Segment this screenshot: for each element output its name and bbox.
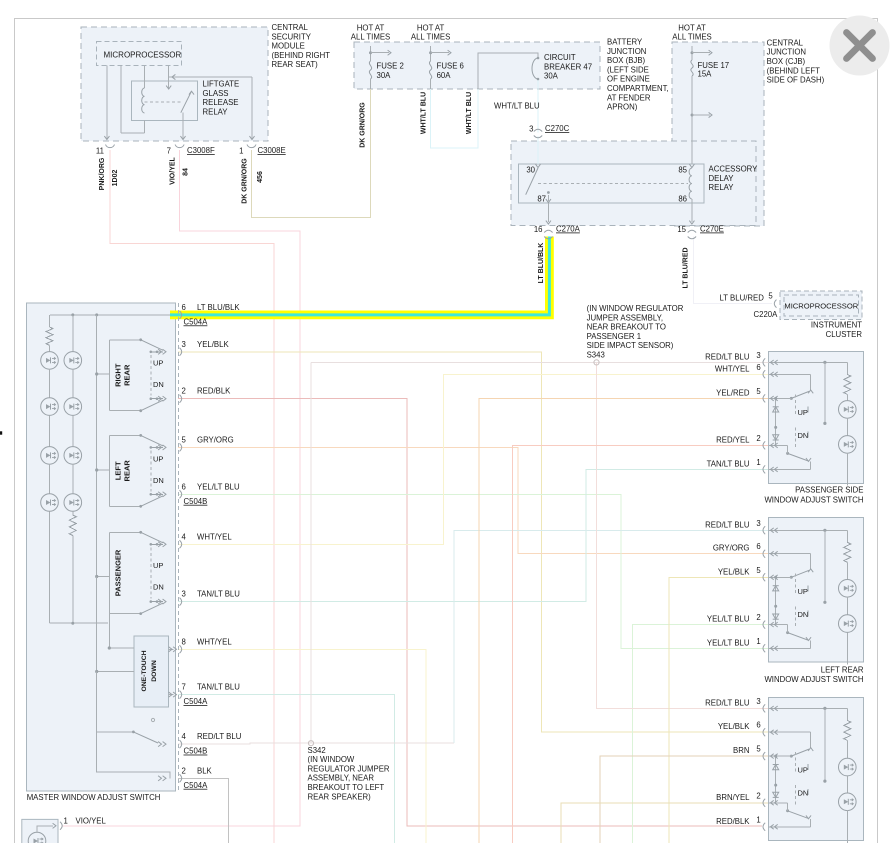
master bottom bus xyxy=(50,622,109,624)
switch pin2 row xyxy=(769,444,788,446)
switch diode column xyxy=(775,398,777,445)
svg-text:MICROPROCESSOR: MICROPROCESSOR xyxy=(104,51,182,60)
switch arm down xyxy=(788,811,808,819)
svg-text:DN: DN xyxy=(153,583,164,592)
svg-text:REAR: REAR xyxy=(123,460,132,482)
switch arm down xyxy=(788,633,808,641)
svg-text:PNK/ORG: PNK/ORG xyxy=(99,157,106,190)
svg-text:6: 6 xyxy=(756,363,760,372)
switch resistor xyxy=(846,362,848,374)
svg-text:NEAR BREAKOUT TO: NEAR BREAKOUT TO xyxy=(587,323,666,332)
svg-text:RELAY: RELAY xyxy=(203,107,229,116)
svg-text:GRY/ORG: GRY/ORG xyxy=(713,544,750,553)
svg-text:UP: UP xyxy=(798,408,808,417)
svg-text:UP: UP xyxy=(798,766,808,775)
wire WHT/LT BLU to relay xyxy=(537,136,539,141)
wire YEL/BLK left rear xyxy=(669,577,768,843)
right rear window adjust switch box xyxy=(769,698,864,841)
svg-text:S342: S342 xyxy=(308,746,326,755)
svg-text:30A: 30A xyxy=(377,71,392,80)
master lamps col2 xyxy=(72,315,74,352)
svg-text:SIDE IMPACT SENSOR): SIDE IMPACT SENSOR) xyxy=(587,341,674,350)
splice S343 xyxy=(594,360,599,365)
svg-text:HOT AT: HOT AT xyxy=(678,23,706,32)
switch lamp 1 xyxy=(839,401,857,419)
svg-text:C270A: C270A xyxy=(556,225,581,234)
svg-text:15A: 15A xyxy=(698,70,713,79)
switch pin6 branch xyxy=(769,553,811,555)
svg-text:C220A: C220A xyxy=(754,310,779,319)
svg-text:REAR SEAT): REAR SEAT) xyxy=(272,60,319,69)
svg-text:YEL/LT BLU: YEL/LT BLU xyxy=(707,615,750,624)
switch arm up xyxy=(791,570,809,577)
battery junction box BJB xyxy=(354,42,600,89)
wire LT BLU/RED xyxy=(694,237,772,304)
switch lamp 2 xyxy=(839,793,857,811)
svg-text:6: 6 xyxy=(756,542,760,551)
svg-text:1: 1 xyxy=(756,458,760,467)
highlighted wire LT BLU/BLK xyxy=(170,237,549,315)
central junction box CJB xyxy=(672,42,764,226)
svg-text:COMPARTMENT,: COMPARTMENT, xyxy=(607,84,669,93)
master resistor col1 xyxy=(49,315,51,327)
svg-text:3: 3 xyxy=(182,590,186,599)
svg-text:2: 2 xyxy=(182,387,186,396)
svg-text:WHT/LT BLU: WHT/LT BLU xyxy=(421,92,428,134)
svg-text:3: 3 xyxy=(756,697,760,706)
switch pin2 row xyxy=(769,624,788,626)
close button xyxy=(830,16,890,76)
wire RED/YEL xyxy=(513,445,769,843)
svg-text:YEL/RED: YEL/RED xyxy=(716,388,750,397)
switch arm up xyxy=(791,391,809,398)
wire VIO/YEL 84 xyxy=(62,150,300,826)
svg-text:RED/LT BLU: RED/LT BLU xyxy=(705,520,750,529)
wire GRY/ORG net xyxy=(178,447,768,553)
svg-text:C3008E: C3008E xyxy=(258,146,286,155)
svg-text:(IN WINDOW: (IN WINDOW xyxy=(308,755,355,764)
one-touch down box xyxy=(134,636,169,707)
wire TAN/LT BLU net 1 xyxy=(178,469,768,601)
svg-text:C504A: C504A xyxy=(184,317,209,326)
BJB fuse 6 xyxy=(430,46,432,61)
svg-text:HOT AT: HOT AT xyxy=(417,23,445,32)
svg-text:RED/BLK: RED/BLK xyxy=(716,817,750,826)
switch top rail xyxy=(769,529,848,531)
relay output wire xyxy=(169,76,252,78)
liftgate glass release relay box xyxy=(132,81,198,121)
svg-text:LT BLU/RED: LT BLU/RED xyxy=(683,247,690,288)
svg-text:BATTERY: BATTERY xyxy=(607,38,643,47)
wire WHT/LT BLU breaker xyxy=(537,79,539,131)
svg-text:1: 1 xyxy=(239,147,243,156)
switch pin5 row xyxy=(769,397,792,399)
svg-text:GRY/ORG: GRY/ORG xyxy=(197,435,234,444)
svg-text:REGULATOR JUMPER: REGULATOR JUMPER xyxy=(308,764,390,773)
svg-text:ALL TIMES: ALL TIMES xyxy=(351,33,390,42)
svg-text:RED/YEL: RED/YEL xyxy=(716,435,750,444)
svg-text:FUSE 2: FUSE 2 xyxy=(377,62,404,71)
svg-text:PASSENGER 1: PASSENGER 1 xyxy=(587,332,641,341)
wire WHT/LT BLU loop xyxy=(431,89,478,148)
wire DK GRN/ORG 456 xyxy=(252,89,371,218)
svg-text:WINDOW ADJUST SWITCH: WINDOW ADJUST SWITCH xyxy=(764,675,863,684)
master C504 dashed line xyxy=(177,303,179,790)
master switch top bus xyxy=(50,314,170,316)
svg-text:ASSEMBLY, NEAR: ASSEMBLY, NEAR xyxy=(308,774,375,783)
svg-text:86: 86 xyxy=(678,195,687,204)
svg-text:C270E: C270E xyxy=(700,225,724,234)
svg-text:VIO/YEL: VIO/YEL xyxy=(170,156,177,184)
svg-text:LEFT: LEFT xyxy=(114,461,123,480)
svg-text:DK GRN/ORG: DK GRN/ORG xyxy=(360,102,367,148)
wire YEL/LT BLU net 1 xyxy=(178,494,768,648)
svg-text:30: 30 xyxy=(526,166,535,175)
circuit breaker 47 xyxy=(478,53,538,89)
svg-text:LT BLU/BLK: LT BLU/BLK xyxy=(197,303,240,312)
svg-text:BRN: BRN xyxy=(733,746,749,755)
wire YEL/BLK net xyxy=(178,352,768,732)
svg-text:RED/LT BLU: RED/LT BLU xyxy=(705,698,750,707)
svg-text:MICROPROCESSOR: MICROPROCESSOR xyxy=(784,302,858,311)
svg-text:RELAY: RELAY xyxy=(709,183,735,192)
svg-text:LT BLU/RED: LT BLU/RED xyxy=(720,294,765,303)
CSM microprocessor wires xyxy=(106,66,108,139)
svg-text:ONE-TOUCH: ONE-TOUCH xyxy=(141,650,148,691)
svg-text:DN: DN xyxy=(153,380,164,389)
liftgate relay internals xyxy=(142,88,145,113)
switch lamp 1 xyxy=(839,758,857,776)
svg-text:6: 6 xyxy=(182,303,186,312)
passenger side window adjust switch box xyxy=(769,351,864,483)
master pin arrows and connector arcs xyxy=(180,311,182,319)
svg-text:(IN WINDOW REGULATOR: (IN WINDOW REGULATOR xyxy=(587,304,684,313)
switch arm down xyxy=(788,453,808,461)
master left rear section xyxy=(108,435,110,506)
svg-text:CENTRAL: CENTRAL xyxy=(767,38,804,47)
svg-text:JUNCTION: JUNCTION xyxy=(767,48,806,57)
svg-text:TAN/LT BLU: TAN/LT BLU xyxy=(707,459,750,468)
connector C3008 arcs xyxy=(106,145,115,148)
relay coil 85-86 xyxy=(689,164,694,167)
instrument cluster connector xyxy=(774,300,776,308)
wire YEL/RED xyxy=(479,398,768,843)
svg-text:15: 15 xyxy=(677,225,686,234)
svg-text:YEL/BLK: YEL/BLK xyxy=(718,722,750,731)
svg-text:ACCESSORY: ACCESSORY xyxy=(709,165,759,174)
svg-text:C504A: C504A xyxy=(184,697,209,706)
BJB fuse 2 xyxy=(370,46,372,61)
svg-text:30A: 30A xyxy=(544,72,559,81)
svg-text:WHT/YEL: WHT/YEL xyxy=(197,532,232,541)
bottom left lamp box xyxy=(22,819,58,843)
svg-text:DN: DN xyxy=(153,476,164,485)
switch pin1 row xyxy=(769,647,811,649)
master lamps col1 xyxy=(49,351,51,353)
svg-text:SECURITY: SECURITY xyxy=(272,32,312,41)
svg-text:REAR: REAR xyxy=(123,364,132,386)
svg-text:DK GRN/ORG: DK GRN/ORG xyxy=(242,158,249,204)
wire BLK xyxy=(178,778,229,843)
svg-text:(BEHIND LEFT: (BEHIND LEFT xyxy=(767,66,821,75)
splice S342 xyxy=(308,741,313,746)
svg-text:2: 2 xyxy=(756,434,760,443)
svg-text:CIRCUIT: CIRCUIT xyxy=(544,53,576,62)
svg-text:INSTRUMENT: INSTRUMENT xyxy=(811,321,862,330)
switch arm up xyxy=(791,749,809,756)
svg-text:DN: DN xyxy=(798,610,809,619)
wire RED/LT BLU net xyxy=(311,361,770,363)
svg-text:SIDE OF DASH): SIDE OF DASH) xyxy=(767,76,825,85)
svg-text:TAN/LT BLU: TAN/LT BLU xyxy=(197,683,240,692)
switch top rail xyxy=(769,361,848,363)
svg-text:6: 6 xyxy=(756,721,760,730)
svg-text:YEL/BLK: YEL/BLK xyxy=(718,567,750,576)
central security module box xyxy=(81,27,268,141)
svg-text:16: 16 xyxy=(534,225,543,234)
switch lamp 2 xyxy=(839,436,857,454)
svg-text:MODULE: MODULE xyxy=(272,42,305,51)
svg-text:YEL/LT BLU: YEL/LT BLU xyxy=(197,482,240,491)
svg-text:3: 3 xyxy=(756,351,760,360)
svg-text:APRON): APRON) xyxy=(607,103,638,112)
svg-text:REAR SPEAKER): REAR SPEAKER) xyxy=(308,792,372,801)
svg-text:BREAKOUT TO LEFT: BREAKOUT TO LEFT xyxy=(308,783,385,792)
svg-text:456: 456 xyxy=(257,171,264,183)
svg-text:C504B: C504B xyxy=(184,497,208,506)
svg-text:WINDOW ADJUST SWITCH: WINDOW ADJUST SWITCH xyxy=(764,496,863,505)
wire RED/BLK net xyxy=(178,399,762,826)
svg-text:LIFTGATE: LIFTGATE xyxy=(203,80,240,89)
svg-text:RIGHT: RIGHT xyxy=(114,363,123,387)
svg-text:CENTRAL: CENTRAL xyxy=(272,23,309,32)
accessory delay relay internals xyxy=(535,164,540,167)
svg-text:WHT/YEL: WHT/YEL xyxy=(197,637,232,646)
svg-text:CLUSTER: CLUSTER xyxy=(826,330,863,339)
svg-text:3: 3 xyxy=(756,519,760,528)
microprocessor box IC xyxy=(784,295,859,316)
svg-text:BOX (CJB): BOX (CJB) xyxy=(767,57,806,66)
wire TAN/LT BLU net 2 xyxy=(178,695,395,843)
svg-text:UP: UP xyxy=(153,359,163,368)
svg-text:VIO/YEL: VIO/YEL xyxy=(76,817,107,826)
switch resistor xyxy=(846,708,848,720)
switch pin chevrons xyxy=(771,706,774,711)
svg-text:3: 3 xyxy=(182,340,186,349)
svg-text:85: 85 xyxy=(678,166,687,175)
instrument cluster box xyxy=(780,291,862,320)
svg-text:RELEASE: RELEASE xyxy=(203,98,239,107)
switch diode column xyxy=(775,577,777,624)
left rear window adjust switch box xyxy=(769,517,864,662)
switch pin5 row xyxy=(769,755,792,757)
svg-text:WHT/LT BLU: WHT/LT BLU xyxy=(466,92,473,134)
svg-text:FUSE 6: FUSE 6 xyxy=(437,62,464,71)
wire BRN/YEL xyxy=(561,803,768,843)
switch pin6 branch xyxy=(769,373,811,375)
master section bus xyxy=(96,315,98,577)
svg-text:C270C: C270C xyxy=(545,124,570,133)
svg-text:BREAKER 47: BREAKER 47 xyxy=(544,62,592,71)
wire PNK/ORG 1D02 xyxy=(110,150,274,843)
svg-text:8: 8 xyxy=(182,637,186,646)
svg-text:(LEFT SIDE: (LEFT SIDE xyxy=(607,65,649,74)
svg-text:7: 7 xyxy=(182,683,186,692)
svg-text:UP: UP xyxy=(153,455,163,464)
left edge notch xyxy=(0,431,2,434)
svg-text:DN: DN xyxy=(798,431,809,440)
svg-text:2: 2 xyxy=(756,613,760,622)
svg-text:ALL TIMES: ALL TIMES xyxy=(411,33,450,42)
connector C270A xyxy=(544,230,552,232)
switch pin1 row xyxy=(769,826,811,828)
svg-text:5: 5 xyxy=(768,292,773,301)
switch pin2 row xyxy=(769,802,788,804)
svg-text:GLASS: GLASS xyxy=(203,89,229,98)
svg-text:6: 6 xyxy=(182,482,186,491)
svg-text:UP: UP xyxy=(798,587,808,596)
svg-text:DN: DN xyxy=(798,789,809,798)
svg-text:1D02: 1D02 xyxy=(112,170,119,187)
svg-text:3: 3 xyxy=(529,125,533,134)
svg-text:BRN/YEL: BRN/YEL xyxy=(716,793,750,802)
svg-text:11: 11 xyxy=(96,147,104,156)
wire YEL/LT BLU net 2 xyxy=(633,625,769,843)
CJB fuse 17 xyxy=(691,46,693,60)
svg-text:5: 5 xyxy=(182,435,187,444)
svg-text:(BEHIND RIGHT: (BEHIND RIGHT xyxy=(272,51,331,60)
svg-text:HOT AT: HOT AT xyxy=(357,23,385,32)
svg-text:LEFT REAR: LEFT REAR xyxy=(821,666,864,675)
switch lamp 2 xyxy=(839,615,857,633)
svg-text:5: 5 xyxy=(756,387,761,396)
svg-text:87: 87 xyxy=(537,195,546,204)
svg-text:RED/BLK: RED/BLK xyxy=(197,387,231,396)
svg-text:7: 7 xyxy=(167,147,171,156)
svg-text:PASSENGER SIDE: PASSENGER SIDE xyxy=(795,486,863,495)
svg-text:C504A: C504A xyxy=(184,781,209,790)
svg-text:BLK: BLK xyxy=(197,766,213,775)
svg-text:RED/LT BLU: RED/LT BLU xyxy=(197,732,242,741)
master one-touch switch arm xyxy=(96,672,98,732)
svg-text:WHT/LT BLU: WHT/LT BLU xyxy=(494,102,540,111)
svg-text:C504B: C504B xyxy=(184,747,208,756)
switch pin chevrons xyxy=(771,360,774,365)
accessory delay relay inner box xyxy=(519,164,704,203)
master passenger section xyxy=(108,532,110,613)
svg-text:WHT/YEL: WHT/YEL xyxy=(715,364,750,373)
svg-text:PASSENGER: PASSENGER xyxy=(114,549,123,596)
svg-text:YEL/BLK: YEL/BLK xyxy=(197,340,229,349)
switch resistor xyxy=(846,530,848,542)
svg-text:4: 4 xyxy=(182,732,187,741)
svg-text:1: 1 xyxy=(756,637,760,646)
master right rear section xyxy=(108,340,110,411)
svg-text:MASTER WINDOW ADJUST SWITCH: MASTER WINDOW ADJUST SWITCH xyxy=(27,793,161,802)
svg-text:DELAY: DELAY xyxy=(709,174,735,183)
wire BRN xyxy=(600,756,768,843)
svg-text:60A: 60A xyxy=(437,71,452,80)
svg-text:AT FENDER: AT FENDER xyxy=(607,93,651,102)
svg-text:1: 1 xyxy=(64,817,68,826)
svg-text:YEL/LT BLU: YEL/LT BLU xyxy=(707,638,750,647)
svg-text:5: 5 xyxy=(756,745,761,754)
connector C270E xyxy=(688,230,696,232)
microprocessor box CSM xyxy=(97,42,182,66)
svg-text:84: 84 xyxy=(183,168,190,176)
switch top rail xyxy=(769,707,848,709)
bottom lamp box internals xyxy=(28,832,46,843)
wire WHT/YEL net 1 xyxy=(178,374,768,544)
accessory delay relay dashed box xyxy=(511,141,756,226)
master ground path xyxy=(97,732,170,778)
svg-text:LT BLU/BLK: LT BLU/BLK xyxy=(538,243,545,284)
switch lamp 1 xyxy=(839,580,857,598)
svg-text:1: 1 xyxy=(756,815,760,824)
svg-text:2: 2 xyxy=(756,791,760,800)
svg-text:5: 5 xyxy=(756,566,761,575)
switch pin5 row xyxy=(769,576,792,578)
svg-text:RED/LT BLU: RED/LT BLU xyxy=(705,352,750,361)
svg-text:4: 4 xyxy=(182,532,187,541)
svg-text:OF ENGINE: OF ENGINE xyxy=(607,75,650,84)
switch diode column xyxy=(775,756,777,803)
one-touch down wiring xyxy=(108,614,110,648)
svg-text:UP: UP xyxy=(153,561,163,570)
svg-text:DOWN: DOWN xyxy=(151,660,158,682)
connector C270C xyxy=(534,129,542,131)
svg-text:JUMPER ASSEMBLY,: JUMPER ASSEMBLY, xyxy=(587,313,663,322)
master window adjust switch box xyxy=(27,303,176,791)
svg-text:ALL TIMES: ALL TIMES xyxy=(672,33,711,42)
svg-text:BOX (BJB): BOX (BJB) xyxy=(607,56,646,65)
switch pin1 row xyxy=(769,468,811,470)
svg-text:S343: S343 xyxy=(587,350,605,359)
svg-text:JUNCTION: JUNCTION xyxy=(607,47,646,56)
svg-text:2: 2 xyxy=(182,766,186,775)
switch pin chevrons xyxy=(771,528,774,533)
switch pin6 branch xyxy=(769,731,811,733)
wire WHT/YEL net 2 xyxy=(178,649,426,843)
svg-text:TAN/LT BLU: TAN/LT BLU xyxy=(197,590,240,599)
svg-text:C3008F: C3008F xyxy=(187,146,215,155)
